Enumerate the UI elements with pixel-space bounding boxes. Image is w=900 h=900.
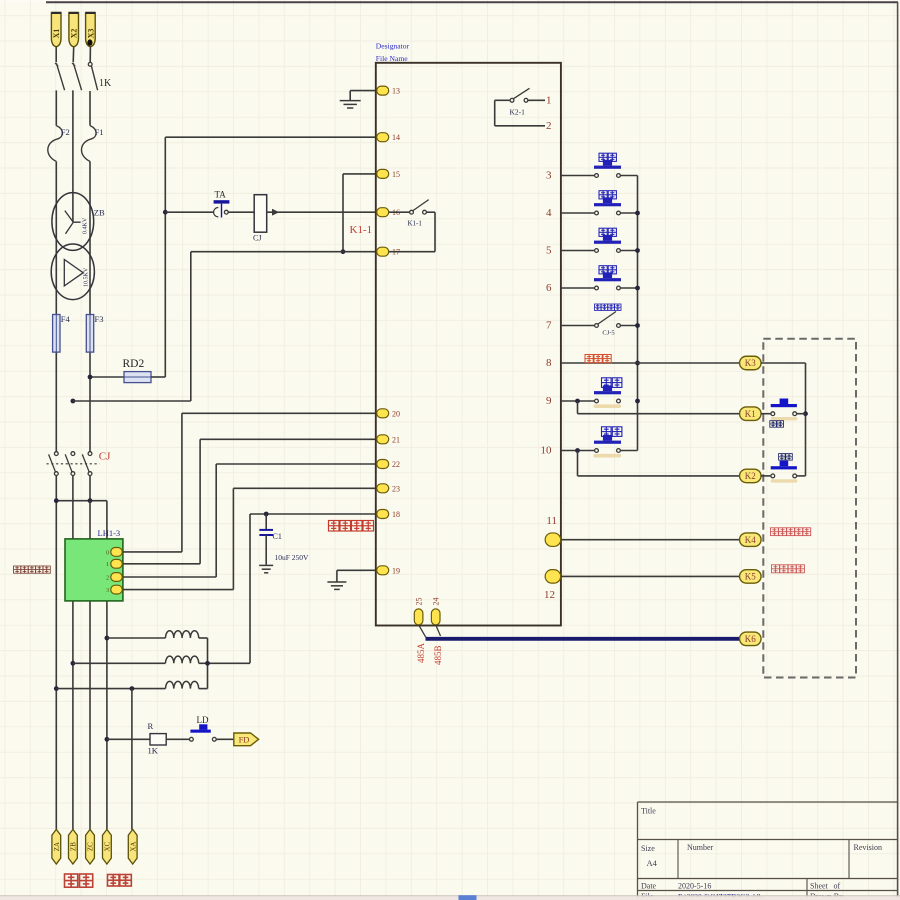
wire CJ pole1 down [55, 475, 57, 829]
svg-text:RD2: RD2 [123, 358, 145, 370]
wire pin9 branch to K1 [577, 401, 579, 414]
svg-text:22: 22 [392, 460, 400, 469]
label 风电闭锁 [772, 565, 805, 573]
svg-text:2: 2 [546, 120, 552, 132]
junction on phase B (pin17 branch) [71, 399, 76, 404]
wire row3 to coil L3 [56, 688, 165, 690]
wire X3 to switch [89, 47, 91, 63]
CJ mechanical linkage dotted line [47, 463, 100, 465]
svg-text:A4: A4 [647, 858, 658, 868]
svg-text:File Name: File Name [376, 54, 408, 63]
pushbutton 分闸 pin 10 [595, 449, 599, 453]
svg-text:XC: XC [104, 841, 112, 851]
inductor L3 [166, 681, 199, 688]
wire 4th conductor down [106, 501, 108, 830]
plc pin 24 (bottom) [431, 609, 440, 625]
wire K3 into box [761, 362, 806, 364]
svg-text:X3: X3 [86, 29, 95, 39]
wire pin15 riser [343, 173, 379, 175]
wire LH1-3 pin 2 to plc pin 22 [123, 576, 216, 578]
svg-text:of: of [834, 882, 841, 891]
svg-text:C1: C1 [273, 532, 282, 541]
junction phase A row3 [54, 686, 59, 691]
svg-text:Number: Number [687, 843, 714, 852]
wire pin 11 to K4 [561, 539, 740, 541]
svg-text:CJ: CJ [253, 234, 261, 243]
terminal XA [128, 829, 137, 864]
common vertical bus [637, 176, 639, 451]
wire to resistor R [107, 738, 150, 740]
label 电流互感器 [14, 566, 51, 573]
fuse RD2 [124, 372, 151, 383]
title block frame [638, 801, 898, 803]
svg-text:ZB: ZB [70, 842, 78, 851]
net label K1 [740, 407, 762, 421]
svg-text:F4: F4 [61, 314, 71, 324]
LH1-3 pin 1 [111, 559, 123, 568]
svg-text:Size: Size [641, 844, 655, 853]
wire pin18 row [250, 513, 379, 515]
net label K2 [740, 469, 762, 483]
junction 4th conductor row1 [105, 636, 110, 641]
wire phase C to RD2 [90, 376, 124, 378]
svg-text:1K: 1K [99, 78, 112, 89]
terminal XC [103, 829, 112, 864]
terminal ZC [86, 829, 95, 864]
svg-text:F1: F1 [95, 127, 104, 137]
svg-text:K6: K6 [745, 634, 756, 644]
wire remote button to riser [797, 413, 806, 415]
label 漏电闭锁 [329, 521, 374, 532]
wire pin14 [165, 136, 378, 138]
wire pin 7 stub [561, 325, 595, 327]
svg-text:K5: K5 [745, 572, 756, 582]
plc pin 12 [545, 570, 561, 584]
wire CJ pole2 down [72, 475, 74, 829]
svg-text:24: 24 [432, 598, 441, 606]
taskbar fragment [459, 895, 477, 900]
switch pole 2 of 1K [72, 63, 75, 66]
svg-text:0: 0 [106, 549, 109, 556]
wire coil L3 end [199, 688, 208, 690]
wire CJ pole3 down [89, 475, 91, 500]
plc pin 13 [377, 86, 389, 95]
wire contact to common [620, 325, 637, 327]
label 照明 [65, 874, 93, 887]
svg-text:Date: Date [641, 882, 657, 891]
svg-text:1: 1 [546, 94, 552, 106]
svg-text:20: 20 [392, 409, 400, 418]
wire X2 to switch [72, 47, 75, 63]
wire LH1-3 pin 1 to plc pin 21 [123, 563, 200, 565]
pushbutton 上升 pin 4 [595, 211, 599, 215]
wire pin 12 to K5 [561, 575, 740, 577]
pushbutton LD [190, 737, 194, 741]
LH1-3 pin 0 [111, 548, 123, 557]
svg-text:K3: K3 [745, 358, 756, 368]
transformer ZB primary winding (star) [52, 193, 94, 251]
terminal X3 [86, 13, 96, 47]
wire 5th conductor down [131, 689, 133, 830]
svg-text:K4: K4 [745, 535, 756, 545]
fuse F4 [53, 315, 60, 353]
svg-text:15: 15 [392, 170, 400, 179]
svg-text:Title: Title [641, 807, 656, 816]
power port FD [234, 733, 259, 746]
net label K5 [740, 570, 762, 584]
pushbutton 确认 pin 6 [595, 286, 599, 290]
wire row2 to coil L2 [73, 662, 166, 664]
plc pin 16 [377, 208, 389, 217]
pushbutton 复位 pin 5 [595, 249, 599, 253]
ground at pin13 [350, 90, 378, 92]
wire LD to FD port [216, 738, 234, 740]
wire pin18 riser down to coil row2 [249, 514, 251, 663]
pushbutton 下降 pin 3 [595, 174, 599, 178]
plc pin 22 [377, 460, 389, 469]
wire coil L1 to right vertical [199, 637, 208, 639]
plc pin 18 [377, 510, 389, 519]
svg-text:K2-1: K2-1 [510, 108, 526, 117]
svg-text:14: 14 [392, 133, 400, 142]
label 公共端 [585, 355, 611, 363]
plc pin 21 [377, 435, 389, 444]
svg-text:21: 21 [392, 435, 400, 444]
wire pole2 down (phase B) [72, 90, 74, 222]
contactor CJ pole 3 [88, 452, 92, 456]
wire LH1-3 pin 0 to plc pin 20 [123, 551, 182, 553]
svg-text:1K: 1K [148, 746, 159, 756]
plc pin 15 [377, 169, 389, 178]
wire button pin 4 to common [620, 212, 637, 214]
svg-text:18: 18 [392, 510, 400, 519]
wire button pin 6 to common [620, 287, 637, 289]
svg-text:ZA: ZA [53, 842, 61, 851]
net label K3 [740, 356, 762, 370]
junction dot inside X3 [87, 39, 92, 45]
sheet right border [897, 2, 899, 897]
node row to 4th conductor [56, 500, 107, 502]
plc pin 17 [377, 247, 389, 256]
svg-text:2020-5-16: 2020-5-16 [678, 882, 711, 891]
wire TA row left [165, 211, 214, 213]
wire button pin 5 to common [620, 250, 637, 252]
wire CJ coil to pin16 with arrow [267, 211, 379, 213]
LH1-3 pin 2 [111, 573, 123, 582]
fuse F2 (S-curve) [48, 126, 63, 162]
plc pin 25 (bottom) [414, 609, 423, 625]
svg-text:1: 1 [106, 561, 109, 568]
contactor coil CJ [254, 195, 267, 233]
svg-text:Designator: Designator [376, 42, 410, 51]
svg-text:19: 19 [392, 566, 400, 575]
contact K2-1 inside block [528, 99, 545, 101]
svg-text:XA: XA [129, 842, 137, 852]
svg-text:Revision: Revision [854, 843, 882, 852]
svg-text:CJ-5: CJ-5 [602, 330, 614, 337]
svg-text:X1: X1 [52, 29, 61, 39]
LH1-3 pin 3 [111, 585, 123, 594]
svg-text:ZC: ZC [87, 842, 95, 851]
bus entry pin 25 [419, 625, 426, 637]
svg-text:F2: F2 [61, 127, 70, 137]
svg-text:4: 4 [546, 207, 552, 219]
wire pole1 to fuse F2 [55, 90, 57, 125]
wire pin 8 to K3 [561, 362, 740, 364]
junction 4th conductor R row [105, 737, 110, 742]
dashed remote control box [763, 339, 856, 678]
svg-text:5: 5 [546, 245, 552, 257]
bottom photo strip [0, 896, 900, 900]
svg-text:LH1-3: LH1-3 [98, 528, 121, 538]
ground under C1 [259, 564, 273, 566]
svg-text:6: 6 [546, 282, 552, 294]
svg-text:10uF 250V: 10uF 250V [275, 553, 310, 562]
ground at pin19 [327, 581, 346, 583]
wire K1 to remote button [761, 413, 771, 415]
wire pin19 to ground [337, 569, 379, 571]
485 bus (thick) [426, 637, 740, 641]
wire RD2 to node TA [151, 376, 165, 378]
label 瓦斯电闭锁 [771, 528, 811, 536]
sheet top border [46, 1, 898, 3]
svg-text:K1-1: K1-1 [350, 224, 373, 236]
wire row1 to coil L1 [107, 637, 166, 639]
wire pin 10 stub [561, 450, 595, 452]
wire node to pin14 riser [164, 137, 166, 377]
contactor CJ pole 1 [54, 452, 58, 456]
wire pin10 branch to K2 [577, 451, 579, 476]
svg-text:23: 23 [392, 484, 400, 493]
plc pin 23 [377, 484, 389, 493]
wire pin 6 stub [561, 287, 595, 289]
svg-text:9: 9 [546, 395, 552, 407]
terminal ZA [52, 829, 61, 864]
svg-text:11: 11 [546, 515, 557, 527]
wire pin17 branch down to phase B [190, 252, 192, 401]
wire pin 5 stub [561, 250, 595, 252]
switch pole 1 of 1K [55, 63, 58, 66]
net label K4 [740, 533, 762, 547]
pushbutton 合闸 pin 9 [595, 399, 599, 403]
terminal ZB [69, 829, 78, 864]
wire remote button 分闸 to riser [797, 475, 806, 477]
wire pin17 row [191, 251, 379, 253]
contact K1-1 inside block [389, 211, 410, 213]
svg-text:485A: 485A [416, 643, 426, 664]
wire TA to CJ coil [228, 211, 254, 213]
wire R to LD button [166, 738, 189, 740]
wire pin 4 stub [561, 212, 595, 214]
svg-text:7: 7 [546, 320, 552, 332]
contact CJ-5 (合闸信号) [595, 324, 599, 328]
svg-text:3: 3 [106, 587, 109, 594]
wire fuse F2 to transformer [55, 161, 57, 451]
svg-text:8: 8 [546, 357, 552, 369]
junction phase B row2 [71, 661, 76, 666]
remote pushbutton 分闸 [771, 474, 775, 478]
resistor R 1K [150, 734, 166, 745]
svg-text:10.5KV: 10.5KV [84, 267, 90, 287]
terminal X1 [51, 13, 61, 47]
svg-text:0.4KV: 0.4KV [83, 217, 89, 234]
wire pole3 to fuse F1 [89, 91, 91, 126]
svg-text:CJ: CJ [99, 451, 111, 463]
wire K2 to remote button [761, 475, 771, 477]
contactor CJ pole 2 [71, 452, 75, 456]
terminal X2 [69, 13, 79, 47]
svg-text:F3: F3 [95, 314, 104, 324]
plc block U1 outline [376, 63, 561, 626]
wire fuse F1 down through transformer [89, 161, 91, 451]
transformer ZB secondary winding (delta) [51, 244, 94, 300]
svg-text:3: 3 [546, 170, 552, 182]
svg-text:LD: LD [197, 715, 209, 725]
wire button pin10 to common end [620, 450, 637, 452]
switch pole 3 of 1K with contact circle [88, 62, 92, 66]
fuse F1 (S-curve) [82, 126, 97, 162]
svg-text:K2: K2 [745, 471, 756, 481]
plc pin 19 [377, 566, 389, 575]
svg-text:2: 2 [106, 574, 109, 581]
fuse F3 [86, 315, 93, 353]
remote pushbutton 合闸 [771, 412, 775, 416]
svg-text:Sheet: Sheet [810, 882, 829, 891]
inductor L1 [166, 631, 199, 638]
bus entry pin 24 [436, 625, 441, 636]
svg-text:13: 13 [392, 87, 400, 96]
label 信号 [108, 875, 132, 887]
capacitor C1 [265, 514, 267, 530]
wire coil L2 to pin18 riser [199, 662, 250, 664]
svg-text:10: 10 [541, 445, 553, 457]
plc pin 20 [377, 409, 389, 418]
svg-text:12: 12 [544, 589, 555, 601]
wire button pin 3 to common [620, 175, 637, 177]
wire LH1-3 pin 3 to plc pin 23 [123, 589, 233, 591]
wire phase C down to terminal [89, 501, 91, 830]
svg-text:K1: K1 [745, 409, 756, 419]
current transformer LH1-3 green block [65, 539, 123, 601]
inductor L2 [166, 656, 199, 663]
svg-text:K1-1: K1-1 [408, 220, 423, 228]
svg-text:R: R [148, 721, 154, 731]
net label K6 [740, 632, 762, 646]
wire X1 to switch [55, 47, 57, 63]
svg-text:X2: X2 [70, 29, 79, 39]
svg-text:FD: FD [239, 735, 250, 745]
plc pin 14 [377, 133, 389, 142]
wire pin 3 stub [561, 175, 595, 177]
svg-text:485B: 485B [433, 645, 443, 665]
svg-text:TA: TA [215, 190, 227, 200]
svg-text:25: 25 [415, 598, 424, 606]
wire pin 9 stub [561, 400, 595, 402]
svg-text:ZB: ZB [94, 208, 105, 218]
